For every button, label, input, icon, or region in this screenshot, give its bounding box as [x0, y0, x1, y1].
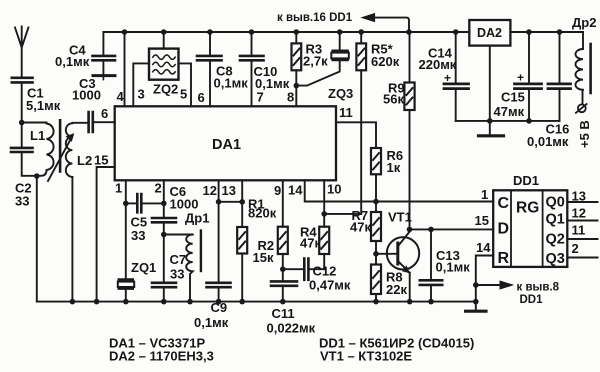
capacitor C15 — [528, 32, 530, 82]
wire: C1 to node A — [21, 84, 23, 123]
svg-text:11: 11 — [339, 105, 353, 120]
svg-text:0,022мк: 0,022мк — [267, 321, 316, 336]
wire: +3.3V top bus — [103, 31, 469, 33]
svg-text:+: + — [517, 71, 524, 85]
capacitor C16 — [559, 32, 561, 82]
wire: DA1 pin 1 — [125, 180, 127, 203]
ground (under DD1 R line) — [466, 310, 486, 313]
svg-text:47мк: 47мк — [494, 104, 525, 119]
capacitor C13 — [428, 227, 434, 233]
wire: ground rail — [37, 301, 476, 303]
svg-text:DD1: DD1 — [513, 173, 539, 188]
svg-text:1000: 1000 — [72, 88, 101, 103]
terminal +5V — [582, 90, 584, 105]
wire: C3 to DA1 pin 6 — [94, 121, 115, 123]
node: collector — [407, 227, 413, 233]
svg-text:C7: C7 — [170, 252, 187, 267]
ground (under C4) — [93, 74, 115, 77]
svg-text:ZQ3: ZQ3 — [328, 86, 353, 101]
wire: node to R5 — [324, 213, 361, 215]
svg-text:0,1мк: 0,1мк — [214, 76, 249, 91]
svg-text:15к: 15к — [253, 250, 274, 265]
svg-text:5: 5 — [180, 87, 187, 102]
wire: DA1 pin 14 net to DD1 pin 1 — [305, 180, 494, 201]
svg-text:2: 2 — [572, 241, 579, 256]
svg-text:14: 14 — [476, 240, 491, 255]
svg-text:C15: C15 — [501, 90, 525, 105]
inductor L2 (transformer secondary) — [72, 122, 88, 124]
svg-text:33: 33 — [15, 194, 29, 209]
svg-text:13: 13 — [222, 183, 236, 198]
svg-text:820к: 820к — [248, 206, 277, 221]
IC DD1 — [493, 190, 567, 267]
wire: branch to DD1 pin16 with arrow — [374, 18, 409, 32]
wire: DA1 pin 10 — [323, 180, 325, 214]
wire: arrow to DD1 pin 8 — [476, 284, 501, 286]
node: C2/L1 joint — [34, 173, 40, 179]
IC DA2 — [469, 20, 510, 46]
inductor L1 (transformer primary) — [37, 124, 54, 176]
svg-text:ZQ2: ZQ2 — [153, 82, 178, 97]
svg-text:11: 11 — [572, 223, 586, 238]
capacitor C1 — [12, 78, 33, 83]
svg-text:к выв.16 DD1: к выв.16 DD1 — [277, 12, 353, 24]
svg-text:ZQ1: ZQ1 — [131, 260, 156, 275]
svg-text:1к: 1к — [387, 160, 401, 175]
svg-text:C9: C9 — [211, 300, 228, 315]
svg-text:620к: 620к — [371, 54, 400, 69]
wire: ZQ2 side taps to DA1 pins 3 and 5 — [133, 63, 149, 106]
svg-text:8: 8 — [287, 90, 294, 105]
svg-text:L2: L2 — [77, 153, 92, 168]
svg-text:Q2: Q2 — [546, 232, 565, 248]
wire: DA1 pin 11 to R6 — [336, 122, 376, 148]
svg-text:1: 1 — [481, 187, 488, 202]
capacitor C4 — [102, 32, 104, 54]
svg-text:0,1мк: 0,1мк — [436, 260, 471, 275]
capacitor C12 — [283, 268, 303, 270]
crystal ZQ1 — [119, 278, 133, 281]
wire: DA1 pin 12 / capacitor C9 — [218, 180, 220, 281]
svg-text:+: + — [444, 71, 451, 85]
wire: DA1 pin 4 to bus — [124, 32, 126, 106]
capacitor C14 — [455, 32, 457, 82]
wire: DA1 pin 15 to ground — [97, 167, 115, 302]
svg-text:Др2: Др2 — [572, 15, 596, 30]
svg-text:12: 12 — [572, 206, 586, 221]
wire: R9 down to VT1 collector node — [409, 110, 411, 229]
wire: DD1 outputs Q0-Q3 — [567, 202, 597, 258]
ground (under DA2) — [489, 121, 491, 135]
svg-text:1: 1 — [115, 181, 122, 196]
svg-text:0,01мк: 0,01мк — [527, 134, 569, 149]
svg-text:9: 9 — [274, 183, 281, 198]
svg-text:22к: 22к — [386, 282, 407, 297]
svg-text:Q3: Q3 — [546, 251, 565, 267]
svg-text:DA2: DA2 — [477, 26, 502, 40]
svg-text:6: 6 — [101, 106, 108, 121]
antenna WA1 — [15, 27, 28, 78]
svg-text:14: 14 — [288, 183, 303, 198]
node: bus junction dots — [122, 29, 563, 35]
svg-text:C: C — [498, 195, 510, 212]
svg-text:0,47мк: 0,47мк — [309, 278, 351, 293]
resistor R4 — [319, 227, 329, 254]
svg-text:13: 13 — [572, 189, 586, 204]
svg-text:DD1: DD1 — [520, 294, 544, 306]
wire: local ground rail under DA2 — [456, 120, 560, 122]
svg-text:DA2 – 1170ЕН3,3: DA2 – 1170ЕН3,3 — [109, 349, 214, 364]
IC DA1 — [115, 106, 336, 180]
svg-text:1000: 1000 — [170, 197, 199, 212]
svg-text:VT1: VT1 — [388, 210, 412, 225]
svg-text:R: R — [498, 250, 510, 267]
svg-text:0,1мк: 0,1мк — [194, 315, 229, 330]
capacitor C11 — [271, 281, 297, 285]
wire: DA1 pin 2 — [163, 180, 165, 216]
svg-text:15: 15 — [475, 213, 489, 228]
svg-text:L1: L1 — [30, 128, 45, 143]
resistor R6 — [371, 148, 381, 174]
capacitor C8 — [209, 32, 211, 55]
svg-text:C11: C11 — [272, 306, 295, 321]
wire: DA1 pin 9 / resistor R2 — [282, 180, 284, 226]
inductor Dr2 — [582, 32, 584, 49]
svg-text:DA1: DA1 — [212, 137, 241, 153]
wire: pin12-pin13 jumper — [219, 201, 243, 203]
node A — [19, 120, 25, 126]
DD1 inner letters — [498, 195, 540, 267]
svg-text:RG: RG — [516, 200, 539, 217]
transistor VT1 — [387, 237, 419, 269]
resistor R7 — [375, 202, 377, 213]
wire: R5 down to R4/pin10 node — [360, 70, 362, 214]
svg-text:10: 10 — [327, 182, 341, 197]
capacitor C6 — [152, 218, 176, 222]
wire: node A to L1 — [22, 122, 47, 124]
resistor R5* — [360, 32, 362, 43]
transformer core — [59, 120, 62, 171]
svg-text:D: D — [498, 221, 510, 238]
wire: +5V input bus (right of DA2) — [510, 31, 583, 33]
svg-text:12: 12 — [203, 183, 217, 198]
transformer tuning arrow — [48, 139, 71, 182]
svg-text:5,1мк: 5,1мк — [26, 98, 61, 113]
wire: DD1 R input (pin 14) — [476, 256, 493, 310]
svg-text:0,1мк: 0,1мк — [55, 54, 90, 69]
svg-text:7: 7 — [257, 90, 264, 105]
resistor R9 — [409, 32, 411, 83]
svg-text:Др1: Др1 — [185, 211, 209, 226]
crystal ZQ3 — [339, 32, 341, 50]
svg-text:Q0: Q0 — [546, 195, 565, 211]
wire: joint down to ground rail — [36, 176, 38, 302]
svg-text:Q1: Q1 — [546, 212, 565, 228]
capacitor C10 — [251, 32, 253, 55]
capacitor C7 — [163, 235, 165, 282]
resistor R8 — [371, 265, 381, 295]
svg-text:4: 4 — [117, 89, 125, 104]
crystal filter ZQ2 — [163, 32, 165, 49]
node: pin10/R4/R5 — [321, 211, 327, 217]
node: R2/C11/C12 — [280, 266, 286, 272]
svg-text:33: 33 — [170, 267, 184, 282]
svg-text:47к: 47к — [300, 236, 321, 251]
svg-text:56к: 56к — [383, 92, 404, 107]
svg-text:2,7к: 2,7к — [303, 54, 328, 69]
node: C6/C7/Dr1 — [161, 232, 167, 238]
node: R3/ZQ3/pin8 — [294, 83, 300, 89]
svg-text:33: 33 — [131, 228, 145, 243]
svg-text:C12: C12 — [313, 264, 337, 279]
wire: L2 bottom to ground rail — [71, 177, 73, 302]
capacitor C3 — [89, 112, 93, 132]
svg-text:47к: 47к — [350, 220, 371, 235]
wire: collector net to DD1 pin 15 — [410, 228, 494, 230]
svg-text:+5 В: +5 В — [577, 120, 592, 148]
capacitor C2 — [21, 123, 23, 147]
svg-text:3: 3 — [138, 87, 145, 102]
wire: DA1 pin 13 / resistor R1 — [241, 180, 243, 227]
wire: DA2 bottom pin — [489, 46, 491, 121]
inductor Dr1 — [164, 234, 193, 236]
svg-text:15: 15 — [94, 153, 108, 168]
resistor R3 — [295, 32, 297, 43]
svg-text:VT1 – КТ3102Е: VT1 – КТ3102Е — [320, 349, 412, 364]
svg-text:220мк: 220мк — [419, 57, 457, 72]
svg-text:6: 6 — [198, 90, 205, 105]
capacitor C5 — [126, 202, 136, 204]
svg-text:к выв.8: к выв.8 — [517, 282, 560, 294]
svg-text:2: 2 — [155, 181, 162, 196]
node: VT1 base — [373, 251, 379, 257]
